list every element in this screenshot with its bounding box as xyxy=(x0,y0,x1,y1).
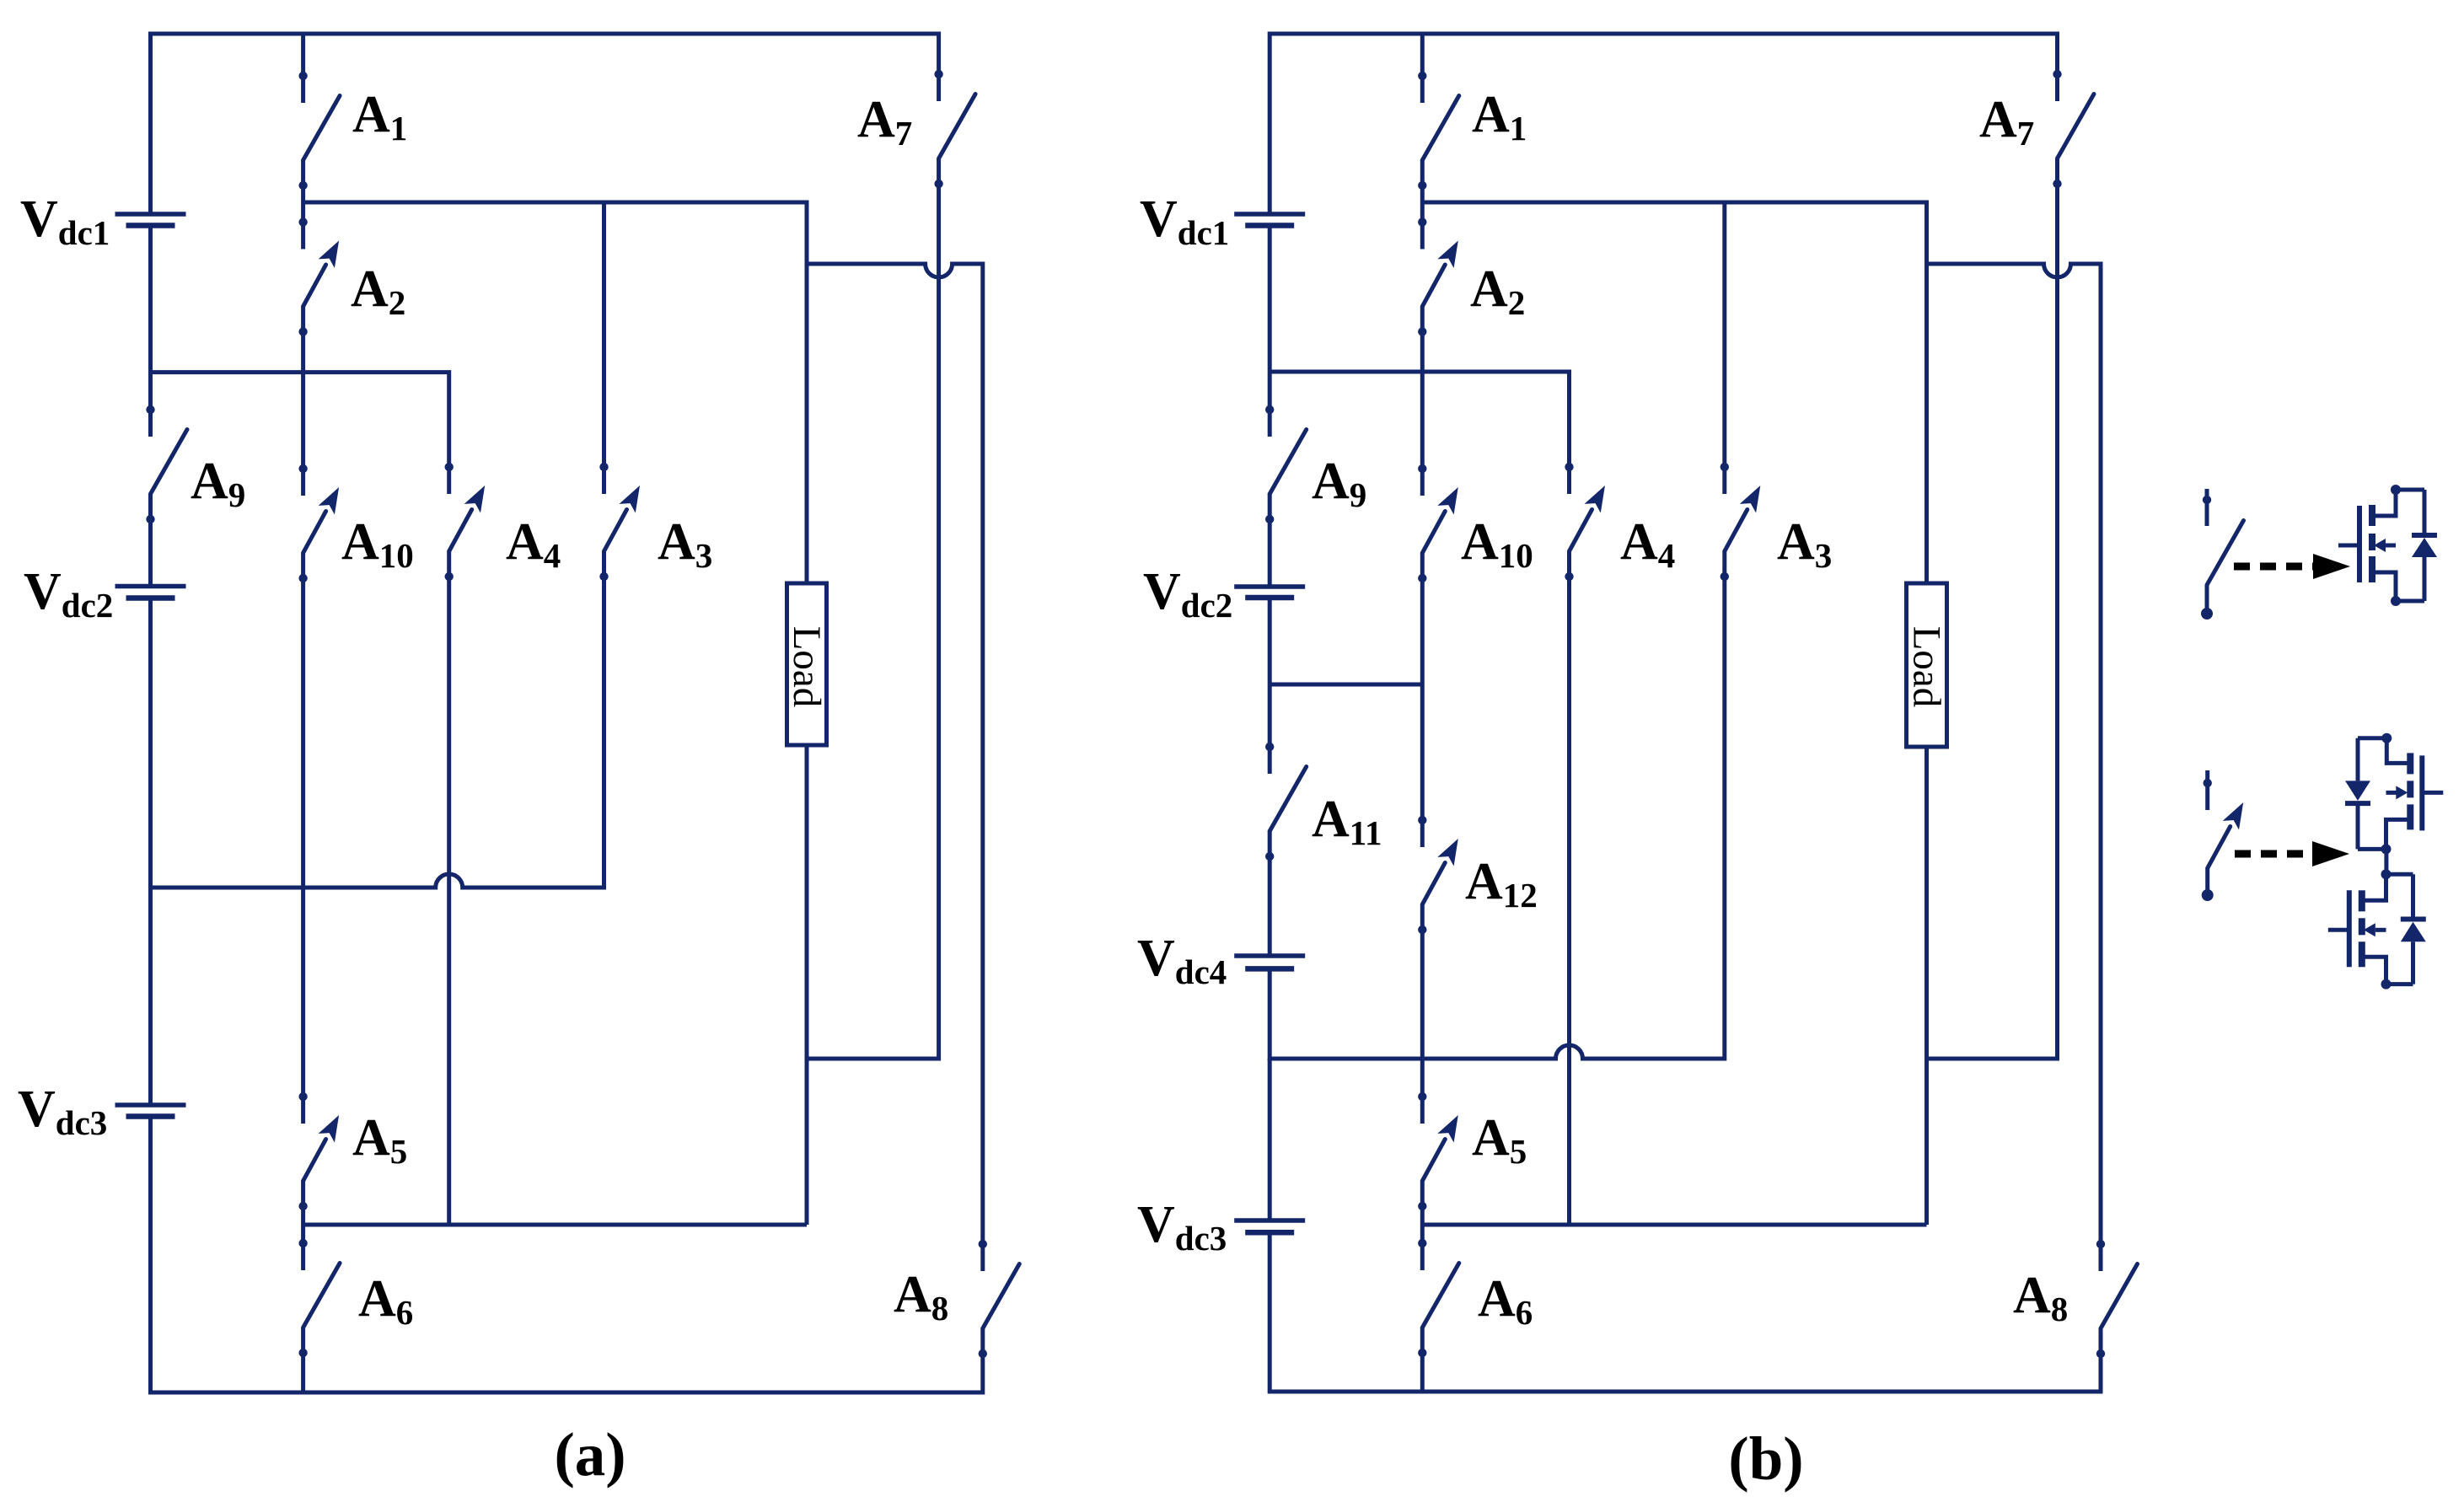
svg-text:Load: Load xyxy=(785,626,829,708)
wire: A3 column top from row1 (a) xyxy=(602,202,606,494)
switch A11 (b) xyxy=(1270,767,1307,832)
battery Vdc2 (b) xyxy=(1234,584,1305,589)
wire: A2 to A10 (a) xyxy=(301,307,305,496)
svg-text:A5: A5 xyxy=(1472,1109,1527,1171)
transistor Q3 (lower MOSFET of bidirectional pair) xyxy=(2347,890,2352,967)
svg-text:A6: A6 xyxy=(358,1270,413,1332)
wire: load link row (a) with hop over A7 column, down right column to A8 xyxy=(807,264,983,1271)
wire: A1 to row1 junction and A2 stub (b) xyxy=(1420,160,1425,249)
switch A3 (b) xyxy=(1725,510,1747,552)
battery Vdc3 (b) xyxy=(1234,1218,1305,1223)
legend dashed arrow 1 xyxy=(2234,563,2316,571)
svg-text:A10: A10 xyxy=(341,513,414,575)
svg-text:A8: A8 xyxy=(894,1266,948,1328)
switch A10 (b) xyxy=(1422,512,1445,554)
wire: load column lower (b) xyxy=(1924,747,1929,1225)
wire: left bus (a) Vdc2 down to node row, then row4 with hop over A4 column, up A3 column xyxy=(151,551,604,888)
switch A7 (a) xyxy=(939,94,976,159)
svg-text:A3: A3 xyxy=(658,513,712,575)
switch A1 (b) xyxy=(1420,34,1425,103)
switch A8 (a) xyxy=(983,1264,1020,1329)
switch A9 (b) xyxy=(1270,430,1307,495)
wire: row1 (b) from A1 down corner to load column xyxy=(1422,202,1926,264)
wire: row2 (a) from left bus to A4 column top xyxy=(151,373,449,494)
svg-text:Vdc2: Vdc2 xyxy=(1143,563,1232,625)
wire: row2 (b) from left bus to A4 column top xyxy=(1270,372,1569,494)
wire: left bus (b) Vdc2 down to row3 junction xyxy=(1268,598,1272,684)
svg-text:A6: A6 xyxy=(1478,1270,1533,1332)
switch A8 (b) xyxy=(2101,1264,2138,1329)
wire: load link row (b) with hop over A7 column, down right column to A8 xyxy=(1927,264,2102,1271)
svg-text:A1: A1 xyxy=(1472,86,1527,148)
battery Vdc3 (a) xyxy=(115,1102,186,1108)
wire: common-source link of bidirectional pair xyxy=(2384,849,2388,874)
wire: A5 to row6 junction and A6 stub (a) xyxy=(301,1181,305,1270)
switch A1 (a) xyxy=(301,34,305,103)
svg-text:A3: A3 xyxy=(1777,513,1832,575)
switch A5 (a) xyxy=(303,1140,326,1182)
svg-text:A12: A12 xyxy=(1465,853,1538,915)
svg-text:Vdc2: Vdc2 xyxy=(24,563,113,625)
svg-text:(a): (a) xyxy=(554,1420,625,1489)
wire: left bus (b) A9 to Vdc2 xyxy=(1268,494,1272,587)
wire: A7 column down to load bottom link (a) xyxy=(807,158,939,1059)
switch A4 (a) xyxy=(449,510,472,552)
svg-text:A5: A5 xyxy=(352,1109,407,1171)
wire: left bus (b) A11 to Vdc4 xyxy=(1268,831,1272,956)
wire: load column upper (a) xyxy=(805,264,809,583)
battery Vdc2 (a) xyxy=(115,584,186,589)
wire: row3 (b) from left bus to A-column xyxy=(1270,683,1422,687)
wire: load column lower (a) xyxy=(805,745,809,1225)
svg-text:A9: A9 xyxy=(191,453,245,514)
battery Vdc4 (b) xyxy=(1234,953,1305,958)
load resistor box (b) xyxy=(1907,583,1947,747)
wire: left bus (b) from Vdc1 to A9 xyxy=(1268,226,1272,437)
switch A3 (a) xyxy=(604,510,627,552)
switch A2 (a) xyxy=(303,265,326,307)
load resistor box (a) xyxy=(787,583,827,745)
wire: top rail (b) with left bus upper segment and A7 stub xyxy=(1270,34,2057,214)
wire: row6 (b) from A5 column to load column xyxy=(1422,1223,1926,1227)
svg-text:A11: A11 xyxy=(1312,791,1382,852)
switch A12 (b) xyxy=(1422,863,1445,905)
switch A9 (a) xyxy=(151,430,188,495)
wire: A4 column down across node row to row6 (a) xyxy=(447,551,451,1225)
wire: A3 column top from row1 (b) xyxy=(1722,202,1726,494)
switch A6 (b) xyxy=(1422,1263,1459,1328)
diode D2 (diode of Q2, cathode down) xyxy=(2356,738,2360,781)
svg-text:A2: A2 xyxy=(351,260,405,322)
wire: row6 (a) from A5 column to load column xyxy=(303,1223,807,1227)
svg-text:Vdc1: Vdc1 xyxy=(20,190,110,252)
diode D1 (antiparallel diode of Q1) xyxy=(2423,490,2427,536)
wire: left bus (a) A9 to Vdc2 xyxy=(148,494,153,587)
switch A6 (a) xyxy=(303,1263,341,1328)
battery Vdc1 (b) xyxy=(1234,212,1305,217)
svg-text:A9: A9 xyxy=(1312,453,1366,514)
wire: left bus (a) node row down to Vdc3 xyxy=(148,888,153,1105)
wire: left bus (b) Vdc4 to row5 junction, row5 with hop over A4 column, up A3 column xyxy=(1270,551,1725,1059)
wire: A5 to row6 junction and A6 stub (b) xyxy=(1420,1181,1425,1270)
svg-text:A4: A4 xyxy=(506,513,561,575)
svg-text:A2: A2 xyxy=(1470,260,1525,322)
svg-text:Vdc3: Vdc3 xyxy=(18,1081,107,1142)
wire: A7 column down to load bottom link (b) xyxy=(1927,158,2058,1059)
wire: A12 down to A5 across row5 (b) xyxy=(1420,904,1425,1124)
legend dashed arrow 2 xyxy=(2235,850,2316,858)
battery Vdc1 (a) xyxy=(115,212,186,217)
wire: A8 to bottom rail (b) and left bus bottom corner xyxy=(1270,1232,2101,1392)
switch A2 (b) xyxy=(1422,265,1445,307)
wire: A2 to A10 (b) xyxy=(1420,307,1425,496)
wire: A10 down to A5 (a) xyxy=(301,553,305,1124)
svg-text:Load: Load xyxy=(1905,626,1949,708)
wire: A10 down to A12 across row3 (b) xyxy=(1420,553,1425,847)
svg-text:Vdc3: Vdc3 xyxy=(1137,1196,1227,1258)
svg-text:A1: A1 xyxy=(352,86,407,148)
switch A4 (b) xyxy=(1570,510,1592,552)
wire: left bus (b) row3 to A11 xyxy=(1268,684,1272,774)
svg-text:A4: A4 xyxy=(1620,513,1675,575)
wire: row1 (a) from A1 down corner to load column xyxy=(303,202,807,264)
svg-text:A8: A8 xyxy=(2013,1267,2068,1328)
transistor Q2 (upper MOSFET of bidirectional pair, mirrored) xyxy=(2419,755,2424,830)
wire: A6 to bottom rail (a) xyxy=(301,1328,305,1392)
svg-text:Vdc4: Vdc4 xyxy=(1137,930,1227,991)
legend switch S1 (ideal switch symbol) xyxy=(2205,489,2209,526)
switch A10 (a) xyxy=(303,512,326,554)
svg-text:A7: A7 xyxy=(857,91,912,153)
svg-text:A10: A10 xyxy=(1461,513,1533,575)
legend switch S2 (arrow switch symbol) xyxy=(2205,770,2209,810)
transistor Q1 (MOSFET with body diode, legend) xyxy=(2357,506,2362,582)
switch A7 (b) xyxy=(2058,94,2095,159)
wire: A8 to bottom rail (a) and left bus bottom corner xyxy=(151,1117,983,1393)
svg-text:A7: A7 xyxy=(1979,91,2034,153)
wire: left bus (a) from Vdc1 to A9 xyxy=(148,226,153,437)
switch A5 (b) xyxy=(1422,1140,1445,1182)
diode D3 (diode of Q3, cathode up) xyxy=(2411,874,2415,916)
wire: load column upper (b) xyxy=(1924,264,1929,583)
wire: top rail (a) with left bus upper segment and A7 stub xyxy=(151,34,939,214)
wire: A1 to row1 junction and A2 stub (a) xyxy=(301,160,305,249)
wire: A4 column down across row5 to row6 (b) xyxy=(1567,551,1571,1225)
svg-text:Vdc1: Vdc1 xyxy=(1140,190,1229,252)
wire: A6 to bottom rail (b) xyxy=(1420,1328,1425,1392)
svg-text:(b): (b) xyxy=(1728,1424,1803,1493)
wire: left bus (b) row5 down to Vdc3 xyxy=(1268,1059,1272,1220)
